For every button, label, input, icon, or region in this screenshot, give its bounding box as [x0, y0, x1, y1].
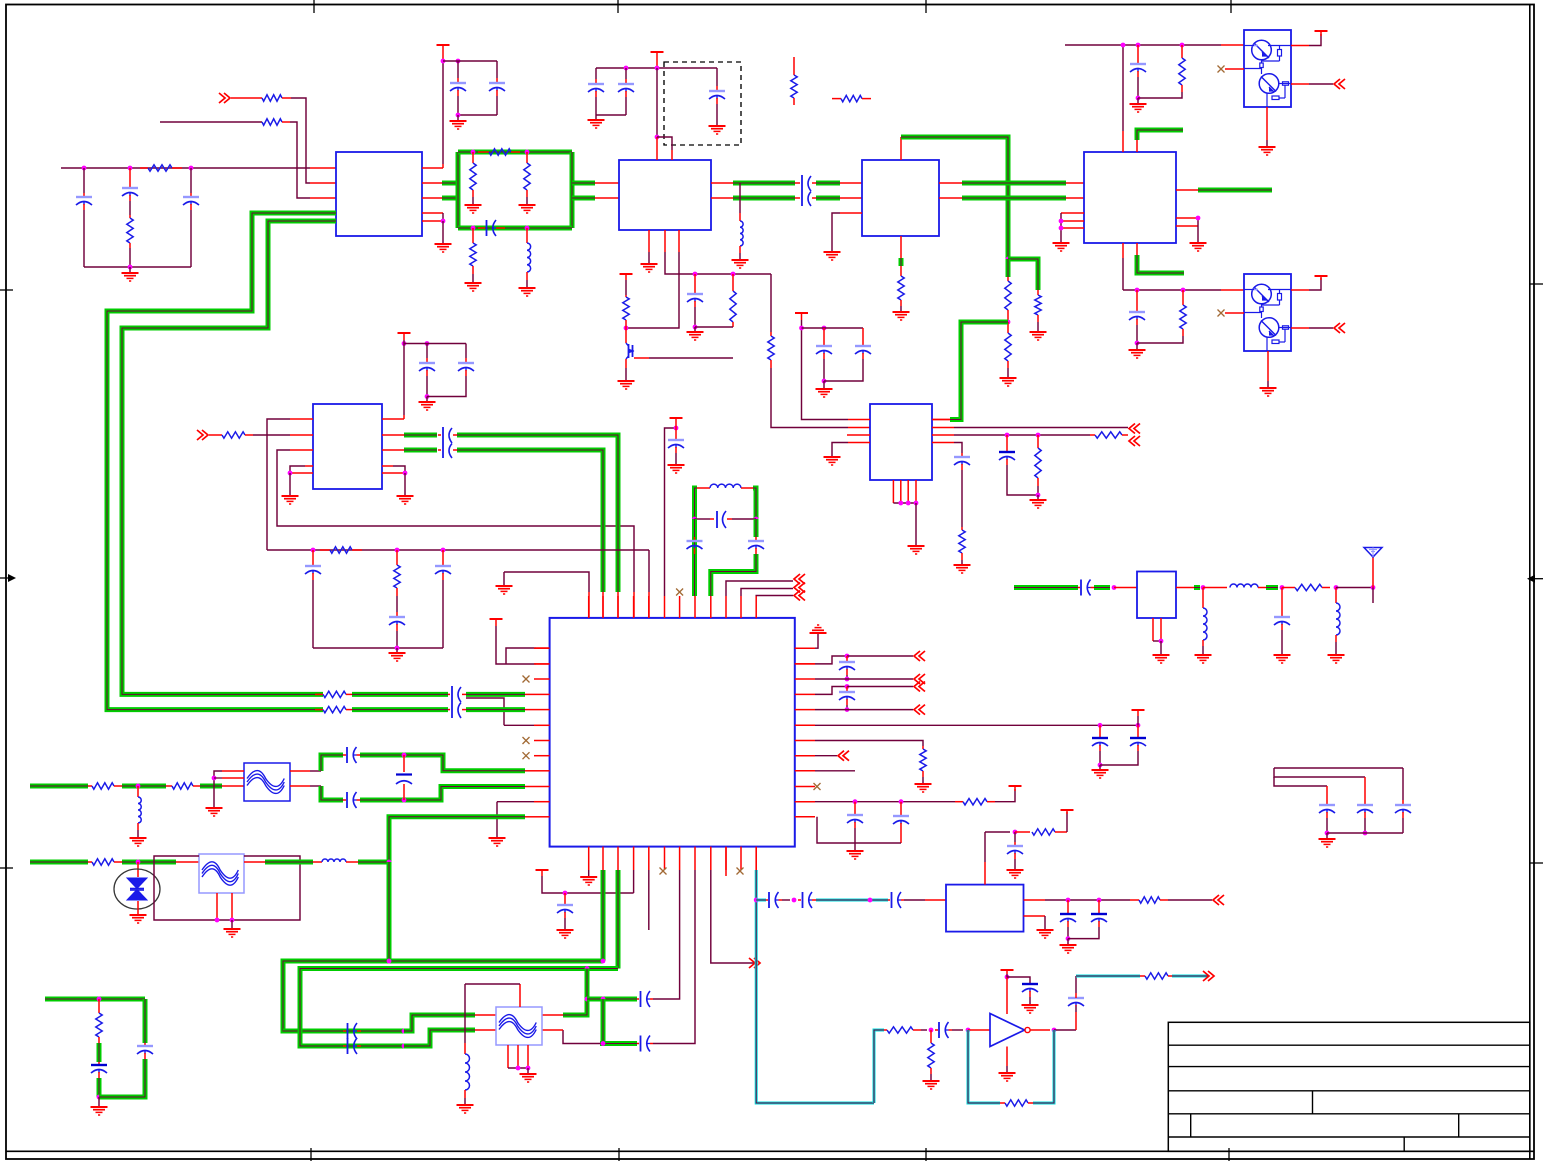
- wire to U1 pin3: [290, 122, 310, 198]
- wire pin740 to R19: [815, 741, 923, 747]
- wire pin664 top: [665, 428, 677, 596]
- resistor R16 + capacitor C12: [396, 550, 398, 565]
- wire vcc rail q2: [1123, 289, 1221, 291]
- wire op-amp out: [1030, 1029, 1050, 1031]
- inductor L-d1: [526, 228, 528, 243]
- wire U4 top1: [1122, 131, 1124, 152]
- resistor R-sh2: [526, 152, 528, 163]
- wire row550: [267, 549, 649, 551]
- wire gnd to pin top1: [504, 572, 589, 592]
- ground op-amp: [1006, 1047, 1008, 1067]
- wire pin664 jog: [795, 663, 815, 665]
- resistor R26: [1140, 975, 1145, 977]
- wire U2 bias pin: [664, 230, 666, 252]
- transistor pair Q1: [1244, 30, 1291, 107]
- resistor R19: [920, 749, 926, 771]
- wire U5 out green rows: [382, 434, 404, 436]
- capacitor C-ser2: [801, 175, 803, 206]
- ground right: [393, 466, 405, 473]
- IC U4: [1084, 152, 1176, 243]
- capacitor C37 between rows: [403, 755, 405, 772]
- wire U6 right 435 long: [932, 434, 954, 436]
- capacitor C29: [823, 328, 825, 345]
- wire cyan input chain: [874, 1030, 884, 1103]
- cap row2 y1043: [563, 1030, 600, 1044]
- capacitor C3: [595, 68, 597, 79]
- wire VCC down to U1: [442, 45, 444, 61]
- IC U8 mixer: [946, 885, 1024, 932]
- wire U4 top2 green: [1136, 140, 1138, 152]
- wire U1 left green A: [313, 211, 336, 216]
- wire: [596, 114, 626, 116]
- wire U1 left green B: [308, 219, 336, 224]
- no-connect x pin679: [676, 589, 683, 596]
- capacitor C11: [312, 550, 314, 565]
- wire U3-U4 row1: [939, 182, 962, 184]
- inductor L6 shunt: [1335, 588, 1337, 604]
- wire pin649 stub: [648, 870, 650, 930]
- wire U4 bottom2 green: [1136, 243, 1138, 255]
- port out Q1: [1291, 83, 1309, 85]
- ground: [1326, 833, 1328, 838]
- IC U5: [313, 404, 382, 489]
- wire F2 mount loop: [154, 856, 300, 920]
- wire rail B: [1274, 768, 1365, 777]
- resistor R7: [732, 274, 734, 291]
- wire U7 bottom gnd: [1152, 618, 1154, 641]
- resistor R31: [88, 785, 92, 787]
- capacitor C26: [1098, 900, 1100, 913]
- power T6: [398, 332, 411, 334]
- resistor R17: [315, 693, 323, 695]
- diode TVS D1: [137, 862, 139, 877]
- wire loop to U2: [572, 181, 595, 186]
- wire U6 left pin1 (from 801): [802, 328, 849, 420]
- wire bottom link: [84, 266, 191, 268]
- power T11: [536, 869, 549, 871]
- inductor L5 series: [1203, 587, 1227, 589]
- ground: [1136, 343, 1138, 349]
- capacitor C28 path up: [1075, 1012, 1077, 1030]
- green row pin817: [389, 817, 525, 862]
- wire vcc2 rail: [596, 67, 717, 69]
- ground: [396, 648, 398, 652]
- capacitor C38: [98, 1062, 100, 1064]
- capacitor C16: [754, 519, 759, 537]
- wire U6 pin435 stub: [847, 434, 870, 436]
- capacitor C6: [694, 274, 696, 293]
- ground: [129, 267, 131, 272]
- wire pin817 path: [817, 817, 901, 843]
- node dots: [441, 59, 446, 64]
- wire green to IC top: [457, 435, 618, 592]
- op-amp U9: [990, 1014, 1025, 1047]
- ground: [1099, 765, 1101, 769]
- power T9: [1132, 709, 1145, 711]
- inductor L9: [465, 1054, 470, 1090]
- wire U5 pin450: [277, 450, 634, 592]
- power VCC T2: [651, 51, 664, 53]
- wire vcc to U2 top: [656, 68, 658, 137]
- wire pin726 stub: [725, 847, 727, 876]
- wire pin710 row: [815, 709, 913, 711]
- port >> pin711: [711, 870, 754, 963]
- wire stub: [1372, 588, 1374, 604]
- ground pin589: [588, 870, 590, 876]
- wire bottom rail: [1327, 832, 1403, 834]
- resistor R32: [166, 785, 172, 787]
- no-connect x pin786: [814, 783, 821, 790]
- wire U8 out row: [1024, 899, 1046, 901]
- resistor R14: [222, 432, 245, 438]
- capacitor C34: [1326, 786, 1328, 804]
- wire pin771 stub: [815, 770, 855, 772]
- wire vcc5: [403, 340, 405, 344]
- wire pin679 row: [815, 678, 913, 680]
- no-connect x: [1218, 310, 1225, 317]
- capacitor C36: [1402, 768, 1404, 800]
- capacitor C24: [1014, 832, 1016, 842]
- wire U4 left gnd pins: [1061, 212, 1084, 214]
- wire F1 out2 jog2: [290, 785, 310, 787]
- wire F2 out: [244, 861, 265, 863]
- resistor R8: [1037, 290, 1039, 295]
- wire U8 top feed: [984, 862, 986, 885]
- ground: [457, 115, 459, 120]
- power T3: [620, 273, 633, 275]
- power T12: [1001, 969, 1014, 971]
- wire rail A: [1274, 767, 1403, 769]
- flying ground: [503, 572, 505, 585]
- capacitor C-var: [692, 517, 697, 522]
- capacitor C18: [846, 687, 848, 692]
- capacitor C25: [1067, 900, 1069, 913]
- filter F2: [199, 854, 244, 893]
- resistor R-top: [478, 151, 489, 153]
- resistor R28: [1037, 435, 1039, 448]
- wire F3 bottom pins: [507, 1045, 509, 1068]
- resistor R25: [1000, 1102, 1005, 1104]
- wire green stub: [45, 997, 145, 1002]
- wire green down: [1006, 259, 1011, 277]
- IC U6: [870, 404, 932, 480]
- wire F1 out jog1: [290, 770, 310, 772]
- resistor R24: [930, 1030, 932, 1043]
- resistor R-sh1: [472, 152, 474, 163]
- inductor L7: [137, 786, 139, 797]
- wire vcc to U5 pin: [403, 344, 405, 416]
- capacitor C8: [1136, 290, 1138, 311]
- feedback cyan: [968, 1030, 1000, 1103]
- IC U3: [862, 160, 939, 236]
- input port >> 1: [224, 93, 230, 103]
- ground: [426, 397, 428, 402]
- wire row550 to IC: [648, 550, 650, 592]
- wire input 2: [160, 121, 262, 123]
- capacitor C-ser bottom: [471, 226, 476, 231]
- resistor R-lone1: [793, 57, 795, 75]
- resistor R10: [1007, 322, 1009, 333]
- capacitor C-ser3: [442, 427, 444, 458]
- capacitor C-c: [190, 168, 192, 193]
- power T4: [1291, 45, 1309, 47]
- wire bottom row: [313, 647, 443, 649]
- node dots rail: [82, 166, 87, 171]
- resistor R-bias: [768, 336, 774, 360]
- capacitor C20: [1137, 725, 1139, 737]
- resistor R30: [1282, 587, 1295, 589]
- capacitor C-ser7: [756, 899, 766, 902]
- resistor R13: [1182, 290, 1184, 305]
- resistor R11: [898, 276, 904, 300]
- resistor R23: [884, 1029, 887, 1031]
- wire U6 right 442 chain: [932, 442, 954, 444]
- capacitor C33: [1281, 588, 1283, 617]
- wire mos gate: [634, 357, 649, 359]
- capacitor C-ser6: [343, 1045, 346, 1047]
- capacitor C23: [564, 893, 566, 904]
- filter F1: [244, 763, 290, 801]
- wire to R-v: [770, 274, 772, 332]
- capacitor C13: [442, 550, 444, 565]
- resistor R15: [320, 549, 330, 551]
- capacitor C21: [854, 802, 856, 814]
- capacitor C27: [1022, 983, 1038, 985]
- capacitor C-ser9: [888, 899, 890, 901]
- capacitor C10: [465, 344, 467, 359]
- capacitor C-ser13: [343, 799, 346, 801]
- ground: [694, 327, 696, 331]
- port pin756: [815, 755, 837, 757]
- wire pin725 left: [504, 724, 534, 726]
- wire cyan pin756: [755, 847, 757, 870]
- capacitor C1: [457, 61, 459, 78]
- wire F1 gnd pins: [222, 770, 244, 772]
- capacitor C14: [675, 428, 677, 439]
- capacitor C-ser10: [935, 1029, 938, 1031]
- wire rail C: [1274, 777, 1327, 786]
- ground Q1: [1266, 107, 1268, 140]
- capacitor C35: [1364, 777, 1366, 804]
- wire to antenna: [1336, 587, 1373, 589]
- inductor L2 to gnd: [739, 183, 741, 213]
- wire to U1 pin2: [291, 98, 310, 183]
- right border arrow: [1533, 578, 1543, 580]
- capacitor C22: [900, 802, 902, 815]
- wire to F3 in1: [404, 1015, 475, 1031]
- capacitor C32: [954, 456, 970, 458]
- inductor L8: [322, 859, 346, 862]
- inductor L4 shunt: [1202, 588, 1204, 609]
- wire T7 to IC pin664: [496, 626, 536, 664]
- power T13 cluster: [795, 312, 808, 314]
- power T5: [1291, 289, 1309, 291]
- resistor R21 to T: [1015, 831, 1030, 833]
- ground pin802: [497, 801, 534, 803]
- capacitor C15: [692, 519, 697, 537]
- capacitor C-ser4: [451, 686, 453, 718]
- wire: [695, 326, 733, 328]
- capacitor C30: [862, 328, 864, 345]
- resistor R20: [955, 801, 963, 803]
- wire pin648: [506, 648, 536, 664]
- capacitor C-ser11: [1078, 587, 1080, 589]
- green link verticals: [563, 969, 587, 1016]
- ports clk out: [726, 581, 793, 596]
- green pin603 chain: [601, 870, 606, 961]
- no-connect x bottom: [660, 868, 667, 875]
- resistor R9: [1007, 277, 1009, 281]
- wire: [458, 114, 497, 116]
- capacitor C-ser5: [283, 1029, 343, 1034]
- wire pin694 jog: [815, 687, 847, 695]
- wire U1 out2: [422, 197, 442, 199]
- wire input rail: [61, 167, 310, 169]
- wire U4 right gnd pins: [1176, 217, 1198, 219]
- wire green RF: [1014, 585, 1078, 590]
- wire U2-U3 row2: [711, 197, 733, 199]
- wire to F3 in2: [404, 1030, 475, 1046]
- dashed option box: [664, 62, 741, 145]
- wire pin802 row: [815, 801, 955, 803]
- resistor R34: [98, 999, 100, 1013]
- wire U8 gnd pin: [1024, 915, 1046, 917]
- wire U6 pin442 gnd: [848, 442, 870, 444]
- cap row1 y999: [587, 997, 637, 1002]
- resistor R22: [1130, 899, 1139, 901]
- resistor R-in1: [253, 97, 262, 99]
- capacitor C-a: [83, 168, 85, 193]
- capacitor C-ser8: [798, 899, 801, 901]
- wire vcc rail q1: [1065, 44, 1221, 46]
- no-connect x: [1218, 66, 1225, 73]
- resistor R33: [88, 861, 92, 863]
- capacitor C2: [496, 61, 498, 78]
- wire green down to row961: [387, 862, 392, 961]
- power T10: [995, 789, 1015, 802]
- IC U10 main: [550, 618, 795, 847]
- wire F3 top feed: [519, 984, 521, 1007]
- capacitor C-ser12: [343, 754, 346, 756]
- port >> 2: [202, 430, 208, 440]
- wire row B green: [30, 860, 88, 865]
- title block: [1168, 1022, 1530, 1151]
- ground: [595, 115, 597, 119]
- power T8: [670, 417, 683, 419]
- capacitor C9: [426, 344, 428, 359]
- port out Q2: [1291, 327, 1309, 329]
- resistor R12: [1181, 45, 1183, 58]
- resistor R-g: [623, 297, 629, 320]
- resistor R-rail: [140, 167, 148, 169]
- wire U3 pin213 gnd: [840, 212, 862, 214]
- capacitor C17: [846, 656, 848, 661]
- IC U1: [336, 152, 422, 236]
- filter F3: [496, 1007, 542, 1045]
- ground: [823, 381, 825, 388]
- wire U2 pin3 down: [678, 230, 680, 252]
- resistor R-lone2: [832, 98, 841, 100]
- wire row A green: [30, 784, 88, 789]
- transistor pair Q2: [1244, 274, 1291, 351]
- IC U2: [619, 160, 711, 230]
- resistor R18: [315, 709, 323, 711]
- wire out row cyan: [1076, 975, 1140, 978]
- resistor R-d1: [472, 228, 474, 243]
- ground Q2: [1267, 351, 1269, 381]
- ground: [1037, 495, 1039, 499]
- wire U3-U4 row2: [939, 197, 962, 199]
- wire U1 pin213/221 to ground: [422, 212, 443, 214]
- capacitor C19: [1099, 725, 1101, 737]
- transistor Q-mos: [625, 328, 627, 343]
- wire T11 row: [542, 876, 634, 893]
- antenna ANT1: [1364, 548, 1382, 558]
- wire U5 pin419: [267, 419, 290, 550]
- wire to U6: [771, 368, 848, 428]
- wire green to U6: [950, 322, 1008, 420]
- wire U1 out1: [422, 182, 442, 184]
- wire U6 right 419 green: [932, 419, 950, 421]
- ground: [1137, 98, 1139, 103]
- ground: [98, 1097, 100, 1106]
- IC U7: [1137, 572, 1176, 619]
- inductor L3: [695, 488, 698, 596]
- capacitor C4: [625, 68, 627, 79]
- no-connect x left pins: [523, 676, 530, 683]
- wire mos source gnd: [625, 359, 627, 368]
- capacitor C5 in dashed box: [716, 68, 718, 86]
- ground: [1067, 939, 1069, 944]
- wire U7 out: [1176, 587, 1194, 589]
- inverted ground pin648: [795, 647, 815, 649]
- wire U3 bottom: [900, 236, 902, 258]
- wire pin633 down: [633, 870, 635, 893]
- wire green branch right: [1008, 259, 1038, 290]
- capacitor C7: [1137, 45, 1139, 63]
- wire U6 right 427 long: [932, 427, 954, 429]
- wire U2 gnd pin: [648, 230, 650, 252]
- capacitor C-b + resistor R-b: [129, 168, 131, 187]
- capacitor C31: [1006, 435, 1008, 451]
- wire pin725 long: [815, 724, 1138, 726]
- wire U4 right green: [1176, 189, 1198, 191]
- left border arrow: [0, 577, 10, 579]
- resistor R29: [959, 530, 965, 553]
- wire U4 bottom1: [1122, 243, 1124, 258]
- wire U5 pin466/473 gnd: [290, 466, 305, 473]
- capacitor C39: [143, 999, 148, 1043]
- wire to U5: [253, 434, 290, 436]
- green pin618 chain: [616, 870, 621, 969]
- wire U3 top green: [900, 137, 902, 160]
- wire green loop: [456, 152, 461, 228]
- wire U2-U3 row1: [711, 182, 733, 184]
- wire U6 bottom pins: [892, 480, 894, 503]
- wire T12 branch cap: [1007, 977, 1030, 983]
- resistor R-in2: [262, 119, 282, 125]
- power T7: [490, 618, 503, 620]
- wire cap feed: [443, 60, 497, 62]
- power VCC T1: [437, 44, 450, 46]
- resistor R27: [1090, 434, 1095, 436]
